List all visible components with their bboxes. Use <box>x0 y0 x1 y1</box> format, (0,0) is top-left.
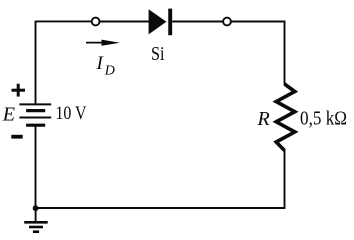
wire left side upper <box>35 21 37 105</box>
current arrow I_D shaft <box>86 42 106 44</box>
wire circle-to-diode <box>100 21 149 23</box>
diode D1 cathode bar <box>168 9 172 36</box>
ground stub wire <box>35 208 37 221</box>
label - (battery negative) <box>11 135 22 139</box>
svg-text:E: E <box>2 104 15 126</box>
wire top-left segment <box>36 20 92 22</box>
wire bottom <box>36 207 286 209</box>
svg-text:0,5 kΩ: 0,5 kΩ <box>300 108 347 130</box>
wire left side lower <box>35 125 37 208</box>
svg-text:10 V: 10 V <box>56 103 87 124</box>
resistor R zigzag <box>276 84 295 151</box>
svg-text:Si: Si <box>151 43 165 65</box>
svg-text:D: D <box>104 63 115 78</box>
wire top-right segment <box>231 21 286 23</box>
battery E long plate 2 <box>19 117 51 119</box>
wire right side lower <box>284 150 286 209</box>
ground bar 2 <box>29 226 43 229</box>
battery E short plate 2 <box>26 124 45 127</box>
diode D1 anode triangle <box>149 9 167 34</box>
svg-text:R: R <box>257 108 270 130</box>
wire diode-to-circle <box>172 21 223 23</box>
node terminal circle left <box>92 18 100 26</box>
node terminal circle right <box>223 18 231 26</box>
wire right side upper <box>284 21 286 85</box>
junction dot <box>33 205 39 211</box>
battery E short plate 1 <box>26 109 45 112</box>
label + (battery positive) <box>12 84 26 97</box>
battery E long plate 1 <box>19 103 51 105</box>
ground bar 1 <box>24 221 48 224</box>
current arrow I_D head <box>102 40 121 46</box>
ground bar 3 <box>33 230 39 233</box>
